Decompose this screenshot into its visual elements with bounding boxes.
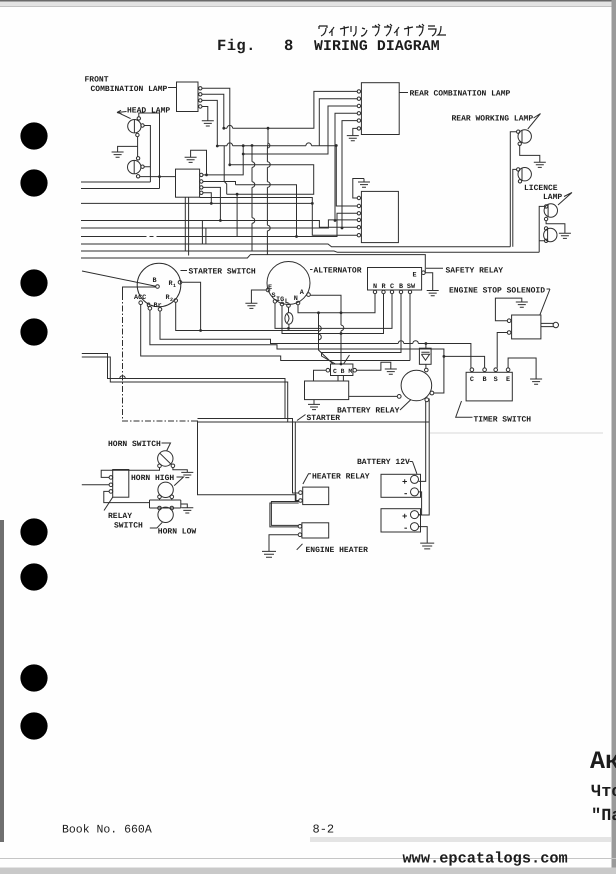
battery2 terminal plus bbox=[411, 511, 419, 519]
wire alternator IG row to safety R bbox=[282, 294, 384, 334]
battery1 terminal minus bbox=[411, 488, 419, 496]
junction front t3 bbox=[216, 145, 219, 148]
scan bottom gray band bbox=[0, 868, 616, 874]
junction C row branch bbox=[443, 355, 446, 358]
wire bus y127 front to rear t1 bbox=[224, 91, 357, 128]
rear lamp2 terminal 5 bbox=[357, 226, 360, 229]
heater relay terminal 2 bbox=[299, 499, 303, 503]
wire relay switch t3 to horn frame bbox=[104, 491, 150, 502]
ground solenoid bbox=[516, 302, 528, 307]
scan bottom faint band right bbox=[310, 837, 611, 842]
battery relay terminal left bbox=[397, 395, 401, 399]
svg-text:FRONT: FRONT bbox=[85, 76, 109, 85]
battery box 1 bbox=[381, 474, 421, 497]
wire hop lattice x252 a bbox=[252, 162, 255, 168]
svg-text:C: C bbox=[390, 283, 394, 291]
svg-text:SAFETY RELAY: SAFETY RELAY bbox=[446, 267, 504, 276]
wire mid lattice x224 bbox=[224, 146, 227, 195]
wire bus pair upper bbox=[82, 354, 299, 494]
ラ bbox=[428, 26, 436, 36]
junction R1 R2 bbox=[199, 329, 202, 332]
svg-text:+: + bbox=[402, 478, 407, 488]
cbm terminal C bbox=[326, 368, 330, 372]
horn low body bbox=[158, 507, 173, 522]
wire solenoid t1 to ground bbox=[495, 298, 521, 321]
svg-text:Fig.: Fig. bbox=[217, 37, 256, 55]
wire head lamp rights join bbox=[144, 126, 150, 183]
wire head lamp2 bottom across bbox=[140, 176, 176, 178]
svg-text:N: N bbox=[373, 283, 377, 291]
punch hole 7 bbox=[20, 664, 47, 691]
timer switch terminal E bbox=[506, 368, 510, 372]
starter motor box bbox=[305, 381, 349, 400]
wire cbm C stub bbox=[314, 370, 327, 381]
ヤ bbox=[404, 26, 413, 36]
wire engine heater t2 to ground bbox=[269, 535, 298, 552]
rear lamp2 terminal 4 bbox=[357, 218, 360, 221]
diode terminal bbox=[425, 368, 429, 372]
front lamp2 terminal 4 bbox=[200, 191, 203, 194]
front lamp2 terminal 2 bbox=[200, 180, 203, 183]
timer switch pin labels bbox=[470, 376, 510, 384]
battery box 2 bbox=[381, 509, 421, 532]
alternator terminal IG bbox=[280, 302, 284, 306]
junction bus154 bbox=[242, 153, 245, 156]
wire hop lattice x252 b bbox=[252, 182, 255, 188]
junction mid lattice bbox=[295, 235, 298, 238]
rear lamp1 terminal 6 bbox=[357, 127, 360, 130]
wire hop bus145 over t1 drop bbox=[227, 143, 233, 146]
wire rear lamp1 t4b drop to rear lamp2 t2 bbox=[336, 146, 357, 207]
junction front box2 t1 feed bbox=[242, 144, 245, 147]
svg-text:8: 8 bbox=[284, 37, 293, 55]
wire head lamp1 bottom to ground and lamp2 top bbox=[118, 137, 138, 157]
イ bbox=[394, 27, 399, 36]
ground head lamp bbox=[112, 152, 124, 157]
wire mid lattice x267 bbox=[266, 128, 269, 254]
wire front t2 to bus127 bbox=[202, 94, 224, 128]
wire alternator S row to safety C bbox=[275, 294, 392, 329]
rear lamp2 terminal 1 bbox=[357, 196, 360, 199]
licence lamp2 terminal bottom bbox=[544, 239, 547, 242]
horn switch terminal right bbox=[171, 464, 175, 468]
wire long vertical x185 bbox=[184, 197, 186, 251]
wire bus y251 to licence lamps bbox=[81, 251, 539, 252]
head lamp 1 bbox=[128, 120, 141, 134]
licence lamp 1 bbox=[544, 204, 557, 217]
wire alternator N row to safety N bbox=[298, 294, 375, 313]
グ bbox=[416, 24, 424, 36]
front lamp terminal 1 bbox=[199, 87, 202, 90]
wire horn frame to ground bbox=[181, 504, 188, 508]
front lamp2 terminal 3 bbox=[200, 186, 203, 189]
wire hop Br row at x415.6 bbox=[413, 341, 419, 344]
engine heater terminal 1 bbox=[298, 525, 302, 529]
safety relay terminal SW bbox=[408, 290, 411, 293]
svg-text:-: - bbox=[403, 524, 408, 534]
wire hop lattice x267 c bbox=[267, 143, 270, 148]
svg-text:www.epcatalogs.com: www.epcatalogs.com bbox=[403, 850, 568, 868]
ground front lamp bbox=[202, 121, 214, 126]
scan top light band bbox=[0, 2, 616, 7]
rear lamp1 terminal 2 bbox=[357, 97, 360, 100]
junction A drop on IG row bbox=[340, 332, 343, 335]
scan left dark strip bbox=[0, 520, 4, 842]
ground rear lamp2 bbox=[358, 182, 370, 187]
svg-text:SWITCH: SWITCH bbox=[114, 522, 143, 531]
junction t4 drop bbox=[334, 219, 337, 222]
wire battery2 minus to ground bbox=[419, 527, 428, 543]
starter switch terminal Br bbox=[158, 308, 162, 312]
horn low terminal left bbox=[158, 506, 162, 510]
relay switch pointer bbox=[104, 497, 113, 510]
wire bus y203 bbox=[81, 202, 312, 204]
licence lamp 2 bbox=[544, 228, 557, 241]
front lamp2 terminal 1 bbox=[200, 173, 203, 176]
wire bundle diagonal right bbox=[344, 355, 350, 364]
wire front t3 to bus145 bbox=[202, 100, 217, 146]
svg-text:E: E bbox=[413, 272, 417, 280]
svg-text:ENGINE HEATER: ENGINE HEATER bbox=[306, 546, 369, 555]
junction x267 top bbox=[267, 127, 270, 130]
rear lamp1 terminal 5 bbox=[357, 119, 360, 122]
japanese title (katakana strokes, approximated) bbox=[319, 24, 446, 36]
heater relay box bbox=[303, 487, 329, 505]
ground alternator E bbox=[245, 303, 257, 308]
safety relay terminal C bbox=[390, 290, 393, 293]
rear working lamp pointer bbox=[528, 114, 541, 130]
scan bottom hairline bbox=[0, 858, 616, 859]
ground battery bbox=[420, 543, 434, 549]
svg-text:HEAD LAMP: HEAD LAMP bbox=[127, 106, 170, 115]
svg-text:B: B bbox=[483, 376, 487, 384]
svg-text:2: 2 bbox=[170, 297, 173, 303]
starter pointer bbox=[297, 415, 306, 421]
wire diode to battery relay bbox=[425, 364, 427, 368]
svg-text:B: B bbox=[399, 283, 403, 291]
relay switch terminal 1 bbox=[109, 476, 113, 480]
wire B diagonal feed bbox=[82, 271, 156, 286]
front combination lamp pointer bbox=[168, 87, 176, 89]
wire working lamp1 to ground bbox=[520, 146, 540, 163]
wire hop bus pair at x122.5 bbox=[120, 376, 126, 379]
heater relay terminal 1 bbox=[299, 491, 303, 495]
head lamp 2 bbox=[128, 160, 141, 174]
starter switch terminal ACC bbox=[139, 301, 143, 305]
wire hop bundle a row328 bbox=[319, 326, 322, 332]
wire bus y244 to rear working lamps bbox=[81, 244, 510, 247]
relay switch terminal 2 bbox=[109, 483, 113, 487]
junction front box2 t3 bbox=[219, 219, 222, 222]
timer switch terminal B bbox=[483, 368, 487, 372]
rear working lamp1 terminal left bbox=[517, 130, 520, 133]
wire hop bundle a row337 bbox=[319, 334, 322, 340]
svg-text:HORN SWITCH: HORN SWITCH bbox=[108, 440, 161, 449]
wire bus y182 head lamps bbox=[81, 181, 150, 183]
horn low terminal right bbox=[170, 506, 174, 510]
wire short vertical x206 bbox=[205, 228, 207, 244]
wire hop bus145 bbox=[306, 143, 312, 146]
horn high terminal right bbox=[170, 495, 174, 499]
wire bus y188.5 head lamps bbox=[81, 188, 160, 190]
wire horn switch left to relay switch bbox=[101, 468, 159, 478]
wire R1 drop bbox=[182, 282, 201, 330]
svg-text:B: B bbox=[153, 277, 157, 285]
wire safety SW drop bbox=[409, 294, 411, 361]
svg-text:WIRING DIAGRAM: WIRING DIAGRAM bbox=[314, 39, 440, 55]
relay switch box bbox=[113, 470, 129, 498]
rear lamp2 terminal 3 bbox=[357, 212, 360, 215]
punch hole 1 bbox=[20, 122, 47, 149]
front lamp terminal 2 bbox=[199, 93, 202, 96]
wire front box2 t1 ground loop bbox=[191, 150, 207, 175]
wire B dash-dot link bbox=[123, 294, 198, 421]
wire hop A drop over S row bbox=[341, 325, 344, 331]
battery1 terminal plus bbox=[411, 475, 419, 483]
scan right gray band bbox=[612, 0, 616, 874]
wire long vertical x188.6 bbox=[188, 197, 190, 255]
rear working lamp2 terminal left bbox=[517, 168, 520, 171]
wire bus pair lower bbox=[82, 357, 299, 501]
wire head lamp tops to vertical bbox=[139, 113, 160, 189]
head lamp 2 terminal top bbox=[136, 157, 139, 160]
starter switch terminal R2 bbox=[174, 299, 178, 303]
wire relay switch t2 feed bbox=[82, 484, 109, 486]
battery label pointer bbox=[410, 462, 417, 474]
timer switch terminal C bbox=[470, 368, 474, 372]
safety relay pin labels bbox=[373, 283, 416, 291]
ground cbm M bbox=[385, 369, 397, 374]
junction front box2 t1 gnd bbox=[205, 174, 208, 177]
wire short vertical x202 bbox=[201, 221, 203, 245]
ground rear lamp1 bbox=[347, 136, 359, 141]
wire B link bbox=[123, 287, 156, 294]
wire licence lamps feed vertical bbox=[539, 206, 544, 252]
head lamp 2 terminal right bbox=[141, 165, 144, 168]
wire horn switch right to ground bbox=[173, 468, 187, 473]
junction front box2 t4 bbox=[210, 202, 213, 205]
rear lamp1 terminal 4 bbox=[357, 112, 360, 115]
wire starter to ground bbox=[313, 400, 315, 405]
ground safety relay bbox=[427, 291, 439, 296]
svg-text:LICENCE: LICENCE bbox=[524, 184, 558, 193]
wire mid lattice x252 bbox=[251, 146, 253, 252]
junction bundle a top bbox=[317, 311, 320, 314]
wire safety B row bbox=[322, 294, 402, 353]
junction A drop on N row bbox=[340, 311, 343, 314]
engine stop solenoid terminal 1 bbox=[507, 319, 511, 323]
wire front t4 to ground bbox=[202, 107, 208, 121]
wire C row branch to battery relay bbox=[434, 356, 444, 393]
svg-text:BATTERY 12V: BATTERY 12V bbox=[357, 458, 410, 467]
svg-text:COMBINATION LAMP: COMBINATION LAMP bbox=[91, 85, 168, 94]
punch hole 5 bbox=[20, 518, 47, 545]
wire battery relay bottom drops bbox=[419, 399, 430, 516]
engine heater box bbox=[302, 523, 329, 538]
wire Br row to timer C bbox=[160, 311, 471, 368]
safety relay box bbox=[368, 268, 422, 291]
heater relay pointer bbox=[303, 474, 311, 484]
wire rear lamp1 t4 drop bbox=[335, 113, 357, 220]
horn switch body bbox=[158, 451, 173, 466]
wire bus y220.5 to rear lamp2 t5 bbox=[81, 221, 357, 228]
licence lamp2 terminal top bbox=[544, 227, 547, 230]
wire R2 drop and row bbox=[176, 302, 319, 330]
licence lamp pointer bbox=[558, 193, 572, 206]
diode box bbox=[419, 348, 431, 364]
wire y197.5 to rear lamp t6 bbox=[200, 198, 358, 236]
wire hop lattice x267 a bbox=[267, 162, 270, 168]
junction bundle c bbox=[340, 363, 343, 366]
rear working lamp 1 bbox=[518, 130, 531, 143]
ground front box2 bbox=[185, 157, 197, 162]
wire front box2 t3 bbox=[203, 187, 220, 220]
ground horn switch bbox=[181, 472, 193, 477]
ダ bbox=[384, 24, 392, 36]
ワ bbox=[319, 26, 327, 36]
wire rear lamp2 t1 to ground above bbox=[353, 179, 364, 199]
scan top edge dark line bbox=[0, 0, 616, 2]
head lamp 1 terminal bottom bbox=[136, 133, 139, 136]
wire licence lamp1 to ground bbox=[546, 221, 565, 233]
horn high terminal left bbox=[158, 495, 162, 499]
svg-text:REAR COMBINATION LAMP: REAR COMBINATION LAMP bbox=[410, 90, 511, 99]
wire safety relay E to ground bbox=[425, 273, 433, 291]
svg-text:S: S bbox=[494, 376, 498, 384]
starter switch terminal C bbox=[148, 307, 152, 311]
punch hole 6 bbox=[20, 563, 47, 590]
svg-text:HEATER RELAY: HEATER RELAY bbox=[312, 473, 370, 482]
ground rear working lamp bbox=[534, 162, 546, 167]
svg-text:S: S bbox=[272, 292, 276, 300]
front combination lamp box bbox=[177, 82, 199, 112]
battery2 terminal minus bbox=[411, 523, 419, 531]
wire working lamps feed vertical bbox=[510, 132, 516, 247]
fuse on L wire bbox=[285, 307, 293, 328]
engine stop solenoid box bbox=[512, 315, 541, 339]
svg-text:ALTERNATOR: ALTERNATOR bbox=[314, 267, 362, 276]
starter switch pointer bbox=[181, 270, 188, 272]
punch hole 4 bbox=[20, 318, 47, 345]
wire mid lattice y164.8 bbox=[227, 165, 314, 194]
alternator terminal A bbox=[307, 293, 311, 297]
starter switch pin labels bbox=[134, 277, 176, 310]
junction lattice a bbox=[228, 163, 231, 166]
watermark cyrillic text bbox=[590, 747, 616, 826]
front combination lamp box 2 bbox=[176, 169, 200, 197]
wire hop lattice x252 c bbox=[252, 218, 255, 224]
wire long bus y418.5 bbox=[198, 418, 286, 420]
ヤ bbox=[340, 26, 349, 36]
wire bundle vertical a bbox=[319, 313, 334, 364]
battery relay pointer bbox=[400, 400, 411, 411]
wire bus y228 to rear lamp2 t4 bbox=[81, 220, 357, 228]
junction fuse to row bbox=[287, 327, 290, 330]
svg-text:LAMP: LAMP bbox=[543, 193, 562, 202]
rear combination lamp pointer bbox=[400, 92, 409, 94]
svg-text:RELAY: RELAY bbox=[108, 512, 132, 521]
svg-text:Br: Br bbox=[154, 302, 162, 310]
svg-text:ENGINE STOP SOLENOID: ENGINE STOP SOLENOID bbox=[449, 287, 545, 296]
グ bbox=[372, 24, 380, 36]
wire alternator A drop bbox=[310, 295, 341, 364]
wire hop bus127 over t1 drop bbox=[227, 125, 233, 128]
svg-text:8-2: 8-2 bbox=[313, 823, 335, 837]
wire starter to battery relay bbox=[349, 395, 398, 397]
ン bbox=[361, 28, 367, 36]
ground starter bbox=[308, 404, 320, 409]
rear lamp1 terminal 3 bbox=[357, 104, 360, 107]
starter switch terminal B bbox=[156, 285, 160, 289]
engine heater terminal 2 bbox=[298, 533, 302, 537]
svg-text:STARTER SWITCH: STARTER SWITCH bbox=[189, 268, 256, 277]
junction bus145 x336 bbox=[335, 144, 338, 147]
wire cbm to starter links bbox=[338, 376, 343, 382]
wire front t1 down to lattice bbox=[202, 88, 230, 165]
wire hop Br row at x401 bbox=[398, 341, 404, 344]
wire hop lattice x267 d bbox=[267, 225, 270, 231]
engine stop solenoid pointer bbox=[540, 289, 550, 315]
timer switch box bbox=[466, 372, 512, 401]
alternator terminal N bbox=[296, 301, 300, 305]
wire hop lattice x267 b bbox=[267, 182, 270, 188]
svg-text:HORN HIGH: HORN HIGH bbox=[131, 474, 174, 483]
svg-text:1: 1 bbox=[173, 283, 176, 289]
alternator terminal S bbox=[273, 300, 277, 304]
wire bus y236.5 to rear lamp2 t3 bbox=[81, 213, 357, 236]
svg-text:Что: Что bbox=[591, 783, 616, 802]
wire mid lattice y185 bbox=[236, 185, 297, 237]
wire solenoid t2 to timer S bbox=[497, 333, 507, 368]
engine stop solenoid plunger bbox=[541, 322, 559, 327]
svg-text:E: E bbox=[506, 376, 510, 384]
wire C row to timer B bbox=[150, 310, 485, 368]
svg-text:TIMER SWITCH: TIMER SWITCH bbox=[474, 416, 532, 425]
rear combination lamp box upper bbox=[361, 83, 399, 135]
svg-text:SW: SW bbox=[407, 283, 416, 291]
wire heater relay to engine heater U link bbox=[270, 502, 299, 527]
licence lamp1 terminal bottom bbox=[544, 217, 547, 220]
wire ACC row bbox=[141, 305, 410, 361]
junction lattice b bbox=[236, 193, 239, 196]
ム bbox=[438, 26, 446, 35]
ground timer E bbox=[530, 379, 542, 384]
wire front box2 t4 bbox=[203, 193, 211, 204]
safety relay terminal N bbox=[373, 290, 376, 293]
junction t5 drop bbox=[341, 227, 344, 230]
alternator pointer bbox=[310, 269, 313, 271]
wire front box2 t2 bbox=[203, 182, 236, 185]
battery relay terminal bottom bbox=[425, 398, 429, 402]
wire timer E to ground bbox=[508, 358, 536, 379]
svg-text:+: + bbox=[402, 512, 407, 522]
wire mid lattice x237 bbox=[236, 194, 238, 236]
safety relay terminal B bbox=[399, 290, 402, 293]
cbm connector box bbox=[331, 364, 353, 376]
punch hole 8 bbox=[20, 712, 47, 739]
ground horn low bbox=[181, 508, 193, 513]
wire bus y145.5 front to rear t2 bbox=[217, 99, 357, 146]
starter switch terminal R1 bbox=[178, 281, 182, 285]
cbm terminal M bbox=[353, 368, 357, 372]
head lamp pointer arrow bbox=[117, 110, 131, 118]
horn high body bbox=[158, 482, 173, 497]
rear working lamp2 terminal bottom bbox=[518, 180, 521, 183]
alternator pin labels bbox=[268, 284, 305, 306]
rear lamp2 terminal 2 bbox=[357, 204, 360, 207]
ground engine heater bbox=[262, 551, 276, 557]
wire rear lamp1 t6 to ground bbox=[353, 128, 357, 135]
